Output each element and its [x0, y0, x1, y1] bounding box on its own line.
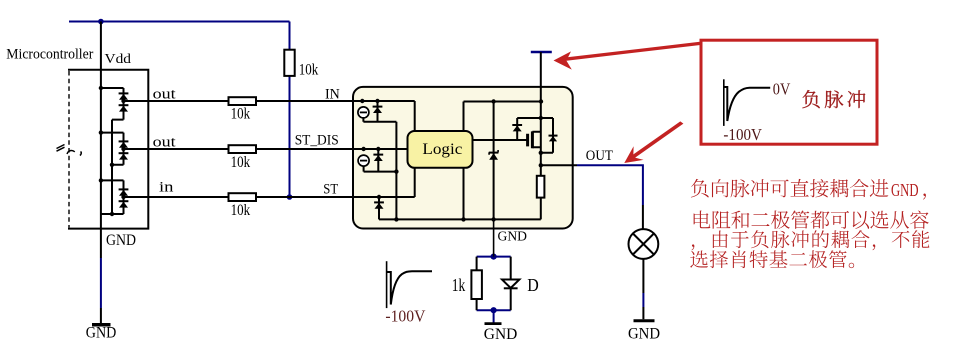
- svg-text:ST_DIS: ST_DIS: [295, 133, 339, 149]
- svg-text:GND: GND: [498, 229, 528, 244]
- svg-text:0V: 0V: [773, 79, 791, 98]
- svg-text:Microcontroller: Microcontroller: [6, 46, 93, 62]
- svg-text:-100V: -100V: [723, 125, 762, 144]
- svg-text:10k: 10k: [299, 62, 319, 79]
- svg-text:Logic: Logic: [422, 141, 462, 158]
- svg-text:10k: 10k: [231, 106, 251, 123]
- svg-text:GND: GND: [891, 180, 919, 200]
- svg-text:1k: 1k: [452, 275, 466, 295]
- svg-text:GND: GND: [484, 326, 518, 343]
- svg-text:out: out: [153, 134, 177, 150]
- svg-text:GND: GND: [86, 325, 117, 342]
- svg-text:in: in: [159, 180, 174, 196]
- svg-text:ST: ST: [323, 182, 338, 198]
- svg-text:Vdd: Vdd: [105, 51, 132, 66]
- svg-text:OUT: OUT: [586, 148, 613, 164]
- svg-text:-100V: -100V: [385, 306, 426, 325]
- svg-text:D: D: [527, 275, 539, 295]
- svg-text:10k: 10k: [231, 154, 251, 171]
- svg-text:GND: GND: [106, 232, 136, 249]
- svg-text:10k: 10k: [231, 202, 251, 219]
- svg-text:IN: IN: [325, 87, 340, 103]
- svg-text:out: out: [153, 86, 177, 102]
- svg-text:GND: GND: [628, 325, 660, 342]
